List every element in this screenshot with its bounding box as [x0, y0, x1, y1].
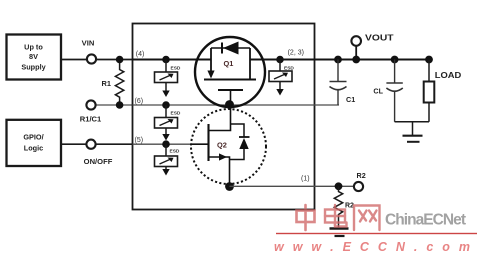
svg-text:(5): (5)	[135, 137, 144, 144]
ground (output side)	[403, 122, 423, 142]
svg-text:ESD: ESD	[284, 66, 294, 72]
terminal VOUT	[355, 46, 357, 60]
source vertical with down arrow	[210, 48, 212, 72]
wire R1/C1 net (6) inside box across to C1	[133, 104, 340, 106]
watermark chinese char 网	[354, 206, 380, 231]
svg-text:R2: R2	[345, 203, 354, 210]
svg-text:Q1: Q1	[224, 59, 234, 68]
svg-text:(1): (1)	[301, 176, 310, 183]
watermark red underline	[276, 233, 477, 234]
wire CL/LOAD bottom	[395, 121, 429, 123]
logic block "GPIO/Logic"	[7, 120, 62, 166]
svg-text:ESD: ESD	[171, 66, 181, 72]
wire output net outside box	[315, 59, 430, 61]
gate/channel plate	[207, 124, 209, 161]
svg-text:C1: C1	[346, 95, 355, 104]
ESD cell on pin 5	[155, 140, 180, 175]
drain stub	[209, 105, 231, 131]
svg-text:(2, 3): (2, 3)	[288, 50, 304, 57]
wire Q1 drain to output pins	[250, 59, 315, 61]
junction Q1 gate / Q2 drain / R1C1 net	[225, 100, 234, 109]
svg-text:ESD: ESD	[170, 149, 180, 155]
channel line	[204, 79, 256, 81]
terminal ON/OFF	[86, 140, 95, 149]
wire supply to VIN terminal	[62, 59, 134, 61]
wire R1/C1 line outside box	[96, 104, 134, 106]
ESD cell on pin 6	[155, 101, 181, 140]
capacitor C1	[330, 56, 356, 105]
svg-text:Q2: Q2	[217, 141, 227, 150]
svg-text:ChinaECNet: ChinaECNet	[385, 212, 466, 229]
svg-text:CL: CL	[373, 87, 383, 96]
svg-text:VOUT: VOUT	[365, 33, 395, 43]
terminal R1/C1	[86, 100, 95, 109]
resistor R1	[115, 60, 123, 106]
watermark chinese char 电	[325, 205, 347, 227]
junction Q2 source / GND pin	[225, 182, 234, 191]
body diode D2	[230, 124, 245, 160]
svg-text:LOAD: LOAD	[435, 71, 462, 80]
gate lead from pin 5	[191, 143, 209, 145]
ESD cell on pin 4	[155, 56, 181, 97]
watermark chinese char 中	[297, 205, 315, 230]
supply block "Up to 8V Supply"	[7, 35, 62, 80]
ESD cell on pins 2,3	[269, 56, 294, 96]
svg-text:Logic: Logic	[24, 143, 43, 152]
capacitor CL	[373, 56, 402, 122]
svg-text:GPIO/: GPIO/	[23, 132, 43, 141]
svg-text:Up to: Up to	[24, 43, 43, 52]
source stub with arrow	[209, 157, 230, 187]
junction VOUT stem	[352, 56, 360, 64]
wire ON/OFF net (5) inside box to Q2 gate	[133, 143, 194, 145]
wire GPIO to ON/OFF terminal	[62, 143, 134, 145]
junction R2 top on GND net	[335, 182, 343, 190]
IC outline box	[133, 24, 315, 210]
wire VIN net inside box to Q1 source	[133, 59, 212, 61]
svg-text:8V: 8V	[29, 52, 38, 61]
wire GND net (1) to outside	[230, 185, 359, 187]
transistor Q2 (NMOS)	[191, 105, 266, 187]
svg-text:(6): (6)	[135, 98, 144, 105]
svg-text:R2: R2	[357, 171, 366, 180]
svg-text:ON/OFF: ON/OFF	[84, 157, 113, 166]
terminal R2 pin	[354, 182, 363, 191]
ground (R2)	[330, 229, 349, 237]
top internal rail with body diode	[211, 47, 250, 49]
drain vertical	[249, 48, 251, 79]
svg-text:Supply: Supply	[21, 63, 46, 72]
junction R1 top on VIN net	[116, 56, 124, 64]
junction R1 bottom on R1/C1 net	[116, 101, 124, 109]
svg-text:R1: R1	[102, 79, 111, 88]
svg-text:(4): (4)	[136, 51, 145, 58]
svg-text:R1/C1: R1/C1	[80, 115, 102, 124]
resistor R2	[334, 186, 354, 227]
terminal VIN	[87, 54, 96, 63]
svg-text:ESD: ESD	[171, 111, 181, 117]
transistor Q1 (pass PMOS)	[195, 37, 265, 107]
svg-text:VIN: VIN	[82, 39, 95, 48]
gate stem	[230, 90, 232, 105]
resistor LOAD	[424, 56, 462, 122]
gate line	[218, 89, 243, 91]
